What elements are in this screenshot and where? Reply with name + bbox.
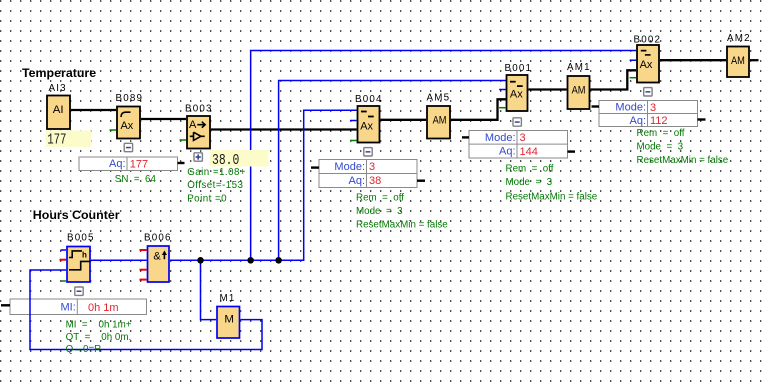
block B003 analog output	[185, 103, 213, 148]
svg-text:Mode = 3: Mode = 3	[637, 142, 684, 153]
svg-text:Mode = 3: Mode = 3	[356, 206, 403, 217]
svg-text:B006: B006	[144, 233, 172, 244]
svg-text:38: 38	[369, 175, 381, 187]
svg-text:Ax: Ax	[360, 120, 373, 132]
svg-text:177: 177	[130, 158, 148, 170]
svg-text:Ax: Ax	[121, 120, 134, 132]
svg-text:AI: AI	[53, 104, 64, 116]
input stub B005 green	[61, 280, 67, 282]
node junction M1 drop	[197, 257, 204, 264]
wire B089 to B003	[141, 118, 186, 120]
svg-text:Rem = off: Rem = off	[637, 128, 685, 139]
svg-text:Ax: Ax	[640, 59, 653, 71]
block AM1 analog marker	[567, 62, 591, 109]
block M1 marker	[217, 293, 240, 338]
svg-text:Point =0: Point =0	[187, 193, 227, 204]
wire B004 to AM5	[381, 119, 427, 121]
parameter box B001 Mode Aq	[469, 131, 568, 159]
svg-text:B001: B001	[505, 63, 533, 74]
svg-text:ResetMaxMin = false: ResetMaxMin = false	[356, 219, 448, 230]
svg-text:112: 112	[650, 115, 668, 127]
wire AM2 output stub	[750, 59, 759, 61]
expand button B003	[194, 153, 202, 161]
svg-text:Aq:: Aq:	[348, 175, 365, 187]
svg-text:177: 177	[47, 132, 66, 148]
svg-text:Aq:: Aq:	[499, 146, 516, 158]
block B006 and edge	[144, 233, 172, 282]
svg-text:&: &	[153, 250, 161, 262]
block B005 hours counter	[67, 233, 95, 283]
wire B005 to B006	[91, 259, 147, 261]
svg-text:Mode:: Mode:	[615, 102, 646, 114]
svg-text:B004: B004	[355, 94, 383, 105]
svg-text:Mode:: Mode:	[485, 132, 516, 144]
input stub B005 blue	[61, 249, 67, 251]
svg-text:3: 3	[650, 102, 656, 114]
svg-text:3: 3	[520, 132, 526, 144]
svg-text:h: h	[82, 251, 87, 260]
node junction riser 2	[275, 257, 282, 264]
wire B006 output to B004 input 1	[170, 110, 357, 260]
tick B004 box left	[311, 166, 319, 168]
svg-text:QT = 0h 0m.: QT = 0h 0m.	[66, 332, 132, 343]
input stub B006 red 3	[140, 279, 147, 281]
svg-text:Mode = 3: Mode = 3	[506, 177, 553, 188]
block AM5 analog marker	[427, 93, 451, 139]
tick B005 box left	[1, 304, 10, 306]
svg-text:3: 3	[369, 161, 375, 173]
svg-text:AM: AM	[731, 55, 745, 67]
collapse button B001	[513, 118, 521, 126]
wire AM5 to B001	[451, 99, 506, 120]
svg-text:Offset=-153: Offset=-153	[187, 180, 243, 191]
tick B002 box left	[592, 105, 600, 107]
parameter box B005 MI	[10, 299, 147, 315]
wire M1 output feedback loop to B005 input 3	[30, 270, 262, 350]
input stub B004 green	[350, 140, 357, 142]
wire AI3 to B089	[71, 109, 116, 111]
svg-text:Hours Counter: Hours Counter	[33, 208, 120, 222]
svg-text:MI = 0h 1m+: MI = 0h 1m+	[66, 320, 132, 331]
value display AI3 177	[46, 131, 92, 149]
svg-text:M: M	[224, 314, 234, 326]
block B089 analog amplifier	[116, 93, 144, 139]
input stub B001 green	[499, 107, 506, 109]
svg-text:AM: AM	[433, 115, 447, 127]
collapse button B089	[124, 143, 132, 151]
svg-text:AM1: AM1	[567, 62, 591, 73]
svg-text:ResetMaxMin = false: ResetMaxMin = false	[637, 155, 729, 166]
input stub B005 red	[60, 259, 67, 261]
block B001 analog max-min	[505, 63, 533, 111]
svg-text:AM: AM	[572, 85, 586, 97]
svg-text:AI3: AI3	[49, 83, 67, 94]
input stub B006 red 2	[140, 269, 147, 271]
value display B003 38.0	[210, 150, 269, 169]
input stub B004 blue	[350, 120, 357, 122]
svg-text:M1: M1	[220, 293, 236, 304]
parameter box B004 Mode Aq	[319, 160, 417, 188]
input stub B001 blue	[499, 89, 506, 91]
svg-text:Mode:: Mode:	[334, 161, 365, 173]
svg-text:MI:: MI:	[61, 302, 76, 314]
svg-text:ResetMaxMin = false: ResetMaxMin = false	[506, 192, 598, 203]
svg-text:Aq:: Aq:	[629, 115, 646, 127]
svg-text:Aq:: Aq:	[109, 158, 126, 170]
tick B001 box right	[568, 150, 576, 152]
wire riser to B002 input 1	[251, 51, 636, 261]
node junction riser 1	[247, 257, 254, 264]
svg-text:AM5: AM5	[427, 93, 451, 104]
collapse button B004	[364, 148, 372, 156]
block B002 analog max-min	[634, 34, 662, 82]
wire B001 to AM1	[529, 88, 567, 90]
svg-text:Rem = off: Rem = off	[356, 193, 404, 204]
svg-text:B005: B005	[67, 233, 95, 244]
svg-text:B002: B002	[634, 34, 662, 45]
wire B003 to B004	[211, 128, 357, 130]
svg-text:Ax: Ax	[510, 88, 523, 100]
svg-text:Gain =1.08+: Gain =1.08+	[187, 167, 246, 178]
wire B002 to AM2	[660, 59, 726, 61]
tick B004 box right	[417, 179, 425, 181]
svg-text:SN = 64: SN = 64	[115, 174, 157, 185]
input stub B003 green	[180, 139, 187, 141]
svg-text:AM2: AM2	[727, 33, 751, 44]
svg-text:Temperature: Temperature	[22, 66, 96, 80]
input stub B089 green	[110, 129, 117, 131]
wire riser to B001 input 1	[279, 81, 506, 261]
svg-text:A: A	[189, 119, 197, 131]
collapse button B005	[75, 287, 83, 295]
collapse button B002	[644, 88, 652, 96]
svg-text:0h 1m: 0h 1m	[88, 302, 119, 314]
svg-text:B003: B003	[185, 103, 213, 114]
wire junction to M1 input	[201, 260, 217, 319]
svg-text:144: 144	[520, 146, 538, 158]
tick B089 box right	[178, 162, 185, 164]
block AM2 analog marker	[727, 33, 751, 77]
tick B001 box left	[462, 136, 469, 138]
parameter box B089 Aq	[79, 157, 178, 171]
input stub B002 blue	[630, 59, 636, 61]
wire AM1 to B002	[591, 70, 637, 89]
tick B002 box right	[698, 118, 706, 120]
input stub B002 green	[630, 77, 636, 79]
input stub B006 red 1	[140, 249, 147, 251]
block AI3 analog input	[47, 83, 70, 129]
block B004 analog max-min	[355, 94, 383, 142]
svg-text:B089: B089	[116, 93, 144, 104]
svg-text:Rem = off: Rem = off	[506, 163, 554, 174]
svg-text:Q→0=R: Q→0=R	[66, 344, 102, 355]
parameter box B002 Mode Aq	[599, 101, 698, 128]
